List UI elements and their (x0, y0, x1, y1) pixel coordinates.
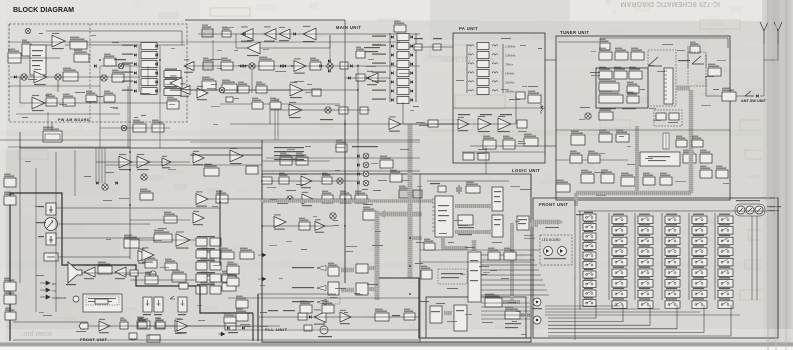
tuner detector sub-box (596, 68, 648, 108)
main unit bottom-left border (20, 132, 262, 148)
diode r2 d (283, 64, 286, 67)
box lt305 (124, 235, 139, 248)
wire antsw left (706, 76, 722, 96)
wire row180 (262, 180, 360, 182)
box close elekey (95, 299, 108, 304)
amp af C9 (162, 156, 171, 169)
box d2 (340, 191, 351, 203)
PA LPF row 21MHz (468, 81, 474, 82)
svg-text:TX: TX (52, 289, 56, 293)
amp mid e1 (180, 83, 190, 96)
BPF filter row 3 (397, 52, 409, 59)
switch key c5r1 (692, 216, 707, 224)
switch key c5r7 (692, 280, 707, 288)
box af vol (154, 230, 172, 242)
pot RIT (737, 206, 745, 214)
paper light patches (0, 0, 793, 21)
wire ant up (760, 44, 764, 96)
switch key c6r8 (718, 290, 733, 298)
amp IF A7 big (303, 26, 316, 42)
ladder1 rail L (138, 46, 140, 92)
switch key c2r5 (612, 258, 627, 266)
box mode sw b (296, 153, 308, 165)
junction dots row66 (251, 65, 253, 67)
elekey box (83, 294, 122, 312)
switch key c3r4 (638, 248, 653, 256)
mixer 2nd ring (327, 63, 333, 69)
box C-64 conn (421, 266, 432, 279)
svg-text:PA UNIT: PA UNIT (459, 26, 478, 31)
box FL-101 (310, 58, 321, 70)
box ts pll (304, 325, 312, 331)
box xtal fil d (355, 191, 367, 203)
wire det row (10, 76, 140, 78)
svg-text:PW AM BOARD: PW AM BOARD (58, 118, 90, 122)
xtr v 486 (485, 146, 487, 163)
amp line (193, 211, 204, 225)
mixer tuner (585, 113, 591, 119)
switch key c5r6 (692, 269, 707, 277)
box LAT pll (298, 313, 307, 320)
matrix return wire 4 (548, 305, 677, 329)
box lg x2 (504, 248, 516, 260)
xtr h 171 (262, 170, 420, 172)
bfo mixer 1 (363, 153, 369, 159)
box 9M a (399, 186, 411, 198)
box ATT 1 (414, 44, 422, 50)
front wire 0 (481, 254, 533, 256)
box coil L2 (615, 48, 628, 60)
box coil L3 (631, 48, 644, 60)
box pll out (404, 309, 415, 320)
matrix return wire 6 (548, 305, 731, 336)
ladder1 dR2 (155, 53, 158, 56)
box mtr sw (164, 212, 177, 223)
wire a3 row (20, 102, 167, 104)
BPF filter row 6 (397, 79, 409, 86)
box bfo buf (390, 170, 402, 182)
box SWR det (517, 120, 527, 128)
box NB trigger (70, 37, 87, 49)
sweep wire 0 (481, 302, 530, 304)
bus to front arrow (529, 223, 538, 227)
elekey dashed inner (86, 296, 119, 305)
box notch driver (202, 77, 216, 90)
xtr v 128 (127, 86, 129, 148)
expander tall 1 (356, 264, 368, 273)
switch key c3r2 (638, 227, 653, 235)
bus cpu-ram 2 (455, 230, 489, 234)
box key matrix t (616, 130, 629, 142)
jack KEY front (533, 316, 541, 324)
front wire 6 (481, 284, 545, 286)
box APC (524, 134, 538, 146)
wire agc below (236, 34, 247, 48)
amp IF A5 (264, 26, 276, 41)
bus tuner to logic (574, 193, 578, 206)
xtr v 213 (212, 40, 214, 62)
box LT-66 inner (45, 134, 60, 140)
svg-text:FRONT UNIT: FRONT UNIT (539, 202, 568, 207)
mixer af b (141, 174, 147, 180)
tuner switch symbol 1 (648, 57, 662, 66)
FRONT UNIT outline (533, 198, 778, 338)
mixer 1st (249, 63, 255, 69)
mixer ref (330, 213, 336, 219)
paper mottle noise (253, 51, 268, 53)
legend RX arrow (40, 281, 50, 285)
diode brk b (242, 326, 245, 329)
jack PHONES (46, 203, 56, 215)
amp keyline (138, 248, 150, 263)
mini switch p7t (170, 296, 175, 299)
wire misc v1 (485, 163, 487, 174)
diode bpf R3 (410, 53, 413, 56)
amp IF A4 (241, 26, 253, 41)
wire notchj (56, 237, 160, 239)
front wire 1 (481, 259, 535, 261)
wire ref row (262, 225, 333, 227)
wire sp row (82, 272, 150, 274)
LED D1 (544, 247, 553, 256)
diode r3 a (348, 76, 351, 79)
amp AGC A8 (247, 40, 260, 56)
switch key c6r4 (718, 248, 733, 256)
box dimmer (505, 307, 520, 319)
amp A2 (34, 69, 47, 85)
box pb x2 (104, 91, 115, 102)
xtr v 160 (159, 66, 161, 148)
box ref osc X4 (363, 207, 376, 220)
matrix column 6 rail (714, 213, 716, 300)
svg-text:COMMON: COMMON (52, 296, 66, 300)
ladder1 box 2 (141, 52, 157, 59)
pll top line (258, 293, 336, 295)
svg-text:1.5MHz: 1.5MHz (505, 45, 516, 49)
xtr v 330 (329, 36, 331, 62)
box key brd conn (485, 294, 502, 307)
box expander logic (458, 215, 473, 225)
box tun x6 (660, 173, 672, 185)
amp if2 a (193, 151, 204, 165)
box memory backup (466, 182, 480, 193)
box xtr m7 (270, 98, 281, 109)
bus tuner vertical right (689, 90, 694, 193)
matrix return wire 3 (548, 305, 650, 325)
box gr3 driving (222, 271, 236, 282)
xtr v 75 (74, 150, 76, 196)
op-amp A1 (52, 33, 65, 49)
box point sw (356, 47, 365, 58)
bus exp arrow 2 (341, 288, 354, 293)
box pll div (236, 309, 248, 321)
matrix column 2 rail (608, 213, 610, 300)
box LPF af (216, 191, 228, 203)
box a/d conv (599, 130, 612, 142)
notch v 275 (274, 98, 276, 140)
ladder1 dL6 (134, 89, 137, 92)
bus branch mid (410, 236, 422, 240)
box notch12 (204, 164, 219, 176)
svg-text:RX: RX (52, 282, 56, 286)
box att c (262, 177, 272, 184)
box LAT pb (167, 97, 179, 109)
box LCD panel (430, 306, 442, 323)
ladder2 box 3 (164, 89, 181, 96)
diode bpf L3 (391, 53, 394, 56)
xtr v 420 (419, 174, 421, 342)
box POWER unit (528, 91, 541, 103)
box limit sw (149, 335, 160, 340)
wire U1 to A1 (46, 44, 52, 46)
switch tall S2 (154, 297, 163, 312)
wire main row66 (185, 65, 420, 67)
switch key c3r5 (638, 258, 653, 266)
wire row90 (185, 89, 290, 91)
diode r3 b (366, 76, 369, 79)
box tun x2 (692, 136, 703, 147)
box sp mute (98, 262, 112, 274)
box tun x3 (700, 166, 712, 178)
diode af b (115, 181, 118, 184)
bfo mixer 2 (363, 162, 369, 168)
bottom scan band (0, 329, 793, 342)
pot TS (755, 206, 763, 214)
switch key c4r7 (665, 280, 680, 288)
wire left long vert1 (129, 64, 131, 259)
box mode sw a (280, 153, 292, 165)
bus exp link 1 (369, 266, 377, 270)
svg-text:LED BOARD: LED BOARD (542, 238, 561, 242)
box X3 crystal (336, 140, 347, 152)
matrix ext wire 3 (545, 314, 740, 316)
svg-text:ANT-SW UNIT: ANT-SW UNIT (741, 99, 767, 103)
amp final PA (498, 116, 511, 132)
dashed lat box (326, 298, 340, 304)
relay antsw (745, 91, 754, 96)
xtr v 706 (705, 54, 707, 68)
diode bpf L4 (391, 62, 394, 65)
pll left bold (257, 294, 259, 341)
matrix column 4 rail (661, 213, 663, 300)
box noise blanker (202, 25, 213, 37)
switch key c1r2 (583, 224, 596, 231)
logic CPU tall box (435, 196, 453, 237)
xtr h 86 (8, 85, 100, 87)
matrix top wire (578, 210, 768, 212)
svg-text:MAIN UNIT: MAIN UNIT (336, 25, 361, 30)
box pll stab (375, 309, 389, 321)
xtr v 56 (55, 152, 57, 312)
box B-142b (478, 153, 489, 160)
wire mic chain (88, 325, 280, 327)
box gr178 (145, 256, 157, 268)
amp sp2 drv (115, 265, 126, 279)
switch key c6r9 (718, 301, 733, 309)
mixer d (287, 196, 293, 202)
jack MIC front (533, 298, 541, 306)
bus dimmer arrow (521, 313, 530, 317)
box FL-1 (221, 58, 233, 70)
box gr07sb (165, 259, 177, 270)
wire center drop (303, 89, 312, 91)
pot SHIFT (746, 206, 754, 214)
mixer c (337, 178, 343, 184)
wire c3 drop (269, 110, 271, 124)
bus cpu down (443, 237, 468, 248)
box B-142 meter (463, 153, 474, 160)
box LT-54 keyboard (517, 216, 529, 230)
amp if2 (294, 58, 306, 73)
diode brk a (227, 326, 230, 329)
box ATT mid (428, 120, 438, 127)
box FM det (222, 80, 237, 93)
box PW SW (581, 170, 594, 183)
box mc1496 (63, 68, 78, 81)
pair box R0 (210, 238, 221, 246)
sweep wire 2 (481, 310, 530, 312)
box comp sw (147, 335, 160, 342)
wire lt66 up (51, 122, 53, 131)
diode af a (96, 181, 99, 184)
diode r2 b (243, 64, 246, 67)
TUNER UNIT outline (556, 36, 730, 200)
BPF filter row 7 (397, 88, 409, 95)
switch key c1r6 (583, 262, 596, 269)
wire phones (56, 207, 220, 209)
tuner CPU (640, 152, 680, 166)
pll vco circle (320, 326, 328, 334)
wire down left (19, 77, 21, 103)
pot group outline (735, 204, 765, 216)
switch key c2r7 (612, 280, 627, 288)
switch key c4r4 (665, 248, 680, 256)
box tun x1 (676, 136, 687, 147)
resistor vertical pa (541, 104, 543, 114)
switch key c2r2 (612, 227, 627, 235)
legend TX arrow (40, 288, 50, 292)
xtr h 158 (266, 157, 420, 159)
BPF filter row 2 (397, 43, 409, 50)
ladder1 dL2 (134, 53, 137, 56)
mixer det bot (121, 125, 127, 131)
box ANT relay t (708, 64, 721, 76)
front right bold (252, 313, 254, 341)
box mid e2 (256, 82, 267, 93)
amp af C8 (137, 154, 150, 170)
wire af row (96, 161, 190, 163)
amp pll 1 (314, 309, 326, 324)
xtr h 160 (556, 159, 628, 161)
xtr h 250 (420, 249, 531, 251)
meter M (45, 218, 58, 231)
ring diode top (328, 59, 331, 62)
PB 8M BOARD dashed outline (9, 24, 187, 122)
box amp c (279, 173, 289, 184)
xtr h 152 (462, 151, 545, 153)
box det bot (133, 120, 146, 132)
svg-text:28MHz: 28MHz (505, 90, 515, 94)
antenna symbol 1 (760, 22, 768, 44)
box agc box (246, 166, 258, 174)
tuner dashed capbox 1 (648, 50, 676, 106)
mixer M1 (21, 74, 27, 80)
svg-text:FRONT UNIT: FRONT UNIT (80, 337, 107, 342)
bus ref left (385, 212, 420, 217)
switch key c2r1 (612, 216, 627, 224)
wire meter (58, 223, 150, 225)
switch key c6r5 (718, 258, 733, 266)
box gr1 (220, 248, 234, 259)
box lg x3 (488, 248, 500, 260)
amp S-meter (289, 102, 302, 118)
pair box L3 (196, 274, 207, 282)
bus cpu-ram 1 (455, 204, 489, 208)
box ROM tuner (700, 150, 712, 163)
wire ant feed (736, 95, 745, 97)
PA LPF row 14MHz (468, 72, 474, 73)
wire NB out (87, 44, 185, 46)
diode antsw (756, 94, 759, 97)
ladder1 dR6 (155, 89, 158, 92)
xtr h 114 (16, 113, 120, 115)
matrix right rail 2 (756, 216, 758, 300)
box LCD driver2 (454, 305, 467, 331)
xtr h 90 (186, 89, 358, 91)
tuner switch symbol 2 (692, 56, 704, 64)
box E-62 drive (483, 136, 496, 149)
notch v 278 (277, 98, 279, 140)
box stretcher (599, 91, 623, 103)
ladder1 dR5 (155, 80, 158, 83)
box gr3 expander (222, 283, 236, 291)
switch key c1r7 (583, 271, 596, 278)
switch key c4r6 (665, 269, 680, 277)
box voltage det (629, 67, 642, 79)
box comp level (129, 333, 137, 339)
main left vert wire (261, 140, 263, 341)
diode pll a (309, 315, 312, 318)
xtr h 108 (453, 107, 545, 109)
LCD driver tall box (468, 252, 481, 302)
wire row199 (208, 198, 370, 200)
PA LPF row 1.5MHz (468, 45, 474, 46)
switch key c6r1 (718, 216, 733, 224)
bfo mixer 4 (363, 180, 369, 186)
amp AGC c1 (290, 82, 303, 98)
diode bpf L5 (391, 71, 394, 74)
box sp r (130, 270, 138, 276)
box tun x5 (643, 173, 655, 185)
diode r2 c (280, 64, 283, 67)
box xtr m6 (252, 98, 263, 109)
front border path (10, 193, 200, 341)
box LPF d (322, 191, 333, 203)
amp notch drv (197, 86, 208, 100)
box NB gate (222, 27, 231, 37)
box fb gbl 1 (227, 262, 239, 274)
switch key c6r3 (718, 237, 733, 245)
wire pll row (259, 316, 419, 318)
mixer C102 (118, 63, 124, 69)
ladder2 box 2 (164, 80, 181, 87)
diode r2 e (319, 64, 322, 67)
box x1 osc (104, 54, 116, 66)
matrix ext wire 0 (545, 305, 620, 307)
box mic 2 (4, 291, 16, 304)
box gra driving (145, 272, 158, 284)
ladder1 box 5 (141, 79, 157, 86)
